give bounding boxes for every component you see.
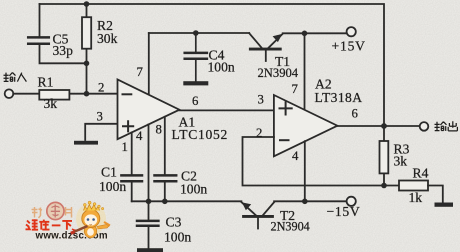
wire input to R1 — [13, 93, 39, 95]
node input label (shuru) — [4, 73, 27, 82]
svg-text:3k: 3k — [44, 96, 58, 111]
node junction pin4 minus rail — [302, 199, 308, 205]
svg-text:7: 7 — [137, 65, 144, 79]
wire minus rail right segment — [274, 200, 346, 202]
pin number labels — [97, 65, 359, 163]
op-amp A2 — [274, 95, 338, 156]
wire A2 pin2 feedback — [243, 137, 400, 186]
-15V terminal — [347, 197, 356, 206]
wire A1 pin4 — [148, 124, 150, 201]
value labels — [38, 18, 429, 245]
svg-text:4: 4 — [292, 149, 299, 163]
wire R4 to ground — [428, 186, 443, 203]
node junction R3 bottom — [381, 183, 387, 189]
input terminal — [5, 89, 14, 98]
ground R4 — [435, 203, 454, 207]
output terminal — [420, 122, 429, 131]
svg-text:2N3904: 2N3904 — [271, 220, 310, 234]
svg-text:100n: 100n — [180, 182, 207, 197]
svg-text:100n: 100n — [99, 179, 126, 194]
svg-text:2: 2 — [256, 126, 262, 140]
svg-text:LT318A: LT318A — [315, 90, 363, 105]
node junction C4 top — [193, 30, 199, 36]
svg-text:C1: C1 — [101, 165, 117, 180]
wire R1 to A1 pin2 — [69, 93, 117, 95]
svg-text:100n: 100n — [208, 60, 235, 75]
svg-text:30k: 30k — [97, 31, 118, 46]
+15V terminal — [347, 27, 356, 36]
transistor T1 — [249, 33, 283, 61]
svg-text:7: 7 — [292, 82, 299, 96]
capacitor C2 — [155, 175, 177, 181]
svg-text:+15V: +15V — [332, 39, 366, 54]
faded seal stamp — [32, 202, 73, 219]
wire node R2 bottom to input node — [86, 63, 88, 93]
svg-text:1k: 1k — [409, 190, 423, 205]
ground C3 — [137, 248, 163, 252]
capacitor C5 — [28, 37, 49, 43]
svg-text:R4: R4 — [413, 166, 429, 181]
capacitor C1 — [121, 175, 142, 181]
node junction output/R3 — [381, 123, 387, 129]
op-amp A1 — [118, 80, 180, 140]
node junction R2 bottom — [84, 61, 90, 67]
svg-text:3k: 3k — [394, 154, 408, 169]
svg-text:33p: 33p — [53, 43, 74, 58]
svg-text:LTC1052: LTC1052 — [172, 127, 229, 142]
resistor R4 — [399, 181, 428, 191]
wire C5 bottom lead — [40, 44, 87, 63]
wire A1 pin1 / C1 — [131, 132, 133, 175]
capacitor C3 — [137, 201, 158, 248]
wire minus rail left segment — [132, 200, 242, 202]
watermark logo — [26, 201, 111, 241]
node junction C2 bottom — [162, 199, 168, 205]
svg-text:3: 3 — [97, 110, 103, 124]
ground C4 — [183, 81, 208, 85]
svg-text:3: 3 — [258, 93, 264, 107]
svg-text:2: 2 — [98, 81, 104, 95]
svg-text:C3: C3 — [166, 215, 182, 230]
wire A1 pin3 to ground — [85, 124, 117, 140]
node junction R2 top — [84, 1, 90, 7]
ground A1 pin3 — [74, 141, 98, 145]
svg-text:6: 6 — [192, 94, 199, 108]
mascot monkey — [70, 201, 110, 238]
node junction input node — [84, 91, 90, 97]
svg-text:8: 8 — [156, 123, 162, 137]
svg-text:2N3904: 2N3904 — [258, 66, 299, 80]
node junction C3 — [146, 199, 152, 205]
transistor T2 — [242, 202, 275, 228]
svg-text:6: 6 — [352, 107, 359, 121]
svg-text:100n: 100n — [164, 230, 191, 245]
svg-text:1: 1 — [122, 140, 128, 154]
node output label (shuchu) — [435, 121, 458, 131]
resistor R2 — [86, 4, 88, 63]
wire A1 pin8 / C2 — [164, 117, 166, 176]
svg-text:4: 4 — [136, 129, 143, 143]
wire C5 top lead — [39, 4, 41, 37]
capacitor C4 — [185, 33, 207, 81]
svg-text:−15V: −15V — [327, 204, 361, 219]
wire A2 output — [337, 125, 419, 127]
wire top feedback rail — [40, 4, 385, 126]
wire A2 pin7 vertical — [304, 33, 306, 110]
resistor R3 — [383, 126, 385, 186]
svg-text:R1: R1 — [38, 75, 54, 90]
resistor R1 — [39, 90, 69, 100]
wire A2 pin4 — [304, 141, 306, 201]
wire A1 output to A2 pin3 — [179, 109, 274, 111]
wire V+ rail to T1 — [149, 32, 249, 34]
wire A1 pin7 — [148, 33, 150, 93]
red logo text weiku yixia — [26, 219, 82, 230]
wire T1 emitter to +15V — [283, 32, 347, 34]
node junction A2 pin7 — [302, 31, 308, 37]
